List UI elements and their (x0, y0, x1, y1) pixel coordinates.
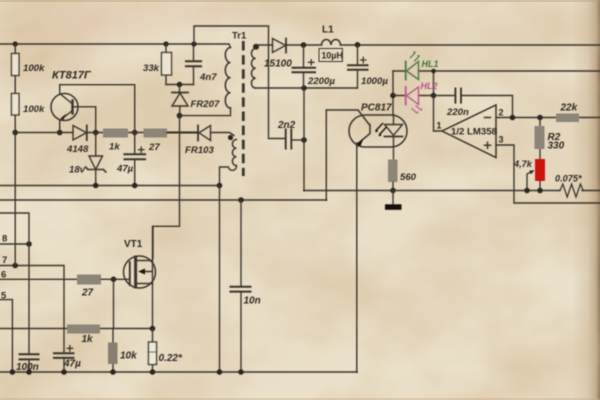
svg-text:27: 27 (148, 142, 160, 153)
capacitor 47u lower (54, 353, 74, 358)
ground symbol (392, 191, 394, 205)
optocoupler PC817 body (349, 115, 407, 147)
wire TL494 feedback row y=200 (0, 199, 326, 201)
svg-text:220n: 220n (446, 107, 469, 118)
node dot 1000u top (355, 42, 361, 48)
diode FR207 (179, 85, 181, 93)
pin 7 wire (0, 266, 64, 354)
wire (14, 115, 16, 133)
transistor VT1 mosfet (124, 256, 156, 288)
pin 6 wire (0, 278, 77, 280)
wire: top supply rail left section (0, 44, 231, 48)
svg-text:2200µ: 2200µ (307, 76, 335, 87)
svg-text:15100: 15100 (264, 59, 292, 70)
svg-text:3: 3 (499, 135, 504, 145)
diode 15100 (273, 39, 286, 53)
diode FR103 (167, 132, 198, 134)
wire: secondary top to diode (256, 44, 273, 46)
node dot divider bottom (12, 130, 18, 136)
svg-text:4n7: 4n7 (199, 72, 217, 83)
capacitor 1000u (357, 45, 359, 88)
node dot base/diode junction (93, 130, 99, 136)
resistor R 100k lower (12, 94, 20, 116)
resistor 0.22* (152, 329, 154, 373)
node dot emitter (57, 130, 63, 136)
svg-text:10µH: 10µH (322, 50, 343, 60)
resistor 27 lower (77, 275, 101, 285)
op-amp output wire to node (434, 96, 443, 132)
transformer core (242, 41, 245, 176)
wire bottom rail y=372 (0, 371, 357, 373)
zener VD 18v (95, 133, 97, 157)
capacitor 2n2 (286, 130, 292, 149)
svg-text:VT1: VT1 (124, 239, 143, 250)
led HL2 (393, 87, 434, 114)
wire x=304 down to ground row (303, 88, 305, 191)
node dot zener bottom (93, 183, 99, 189)
wire: lower return y=185.5 (0, 185, 220, 187)
svg-text:1000µ: 1000µ (361, 76, 388, 87)
wire pin8 jog (0, 213, 29, 244)
wire ground/sense row y=190.5 (304, 190, 600, 192)
transformer Tr1 primary winding (225, 48, 230, 108)
svg-text:33k: 33k (143, 63, 160, 74)
wire PC817 collector riser to TL line (325, 110, 327, 200)
svg-text:0.075*: 0.075* (555, 174, 582, 184)
resistor R 100k upper (12, 54, 20, 76)
svg-text:330: 330 (548, 141, 565, 152)
transformer secondary winding (253, 44, 259, 50)
resistor shunt 0.075* (560, 184, 583, 197)
node dot collector drop / 47u junction (132, 130, 138, 136)
wire: snubber bottom join (166, 84, 194, 86)
svg-text:КТ817Г: КТ817Г (52, 70, 92, 82)
resistor 22k (556, 114, 579, 123)
svg-text:10k: 10k (120, 351, 137, 362)
svg-text:100k: 100k (23, 63, 45, 74)
svg-text:1/2 LM358: 1/2 LM358 (451, 127, 498, 138)
svg-text:L1: L1 (322, 25, 334, 36)
resistor 560 (388, 160, 398, 183)
wire VT1 drain riser (153, 116, 180, 259)
node dot 2200u top (301, 42, 307, 48)
svg-text:HL1: HL1 (422, 59, 439, 69)
capacitor 2200u (303, 45, 305, 88)
wire 1k row y=328.5 (0, 328, 153, 330)
svg-text:HL2: HL2 (421, 81, 438, 91)
svg-text:FR103: FR103 (185, 145, 214, 156)
wire secondary ground rail y=88 (256, 87, 358, 89)
winding phase dot (228, 135, 233, 140)
wire (14, 44, 16, 94)
svg-text:FR207: FR207 (191, 99, 220, 110)
svg-text:18v: 18v (69, 165, 86, 176)
svg-text:100n: 100n (16, 362, 39, 373)
svg-text:1: 1 (437, 121, 442, 131)
svg-text:7: 7 (2, 255, 7, 266)
svg-text:100k: 100k (23, 104, 45, 115)
wire: Y-cap bridge over transformer (194, 26, 285, 139)
node dot feedback/return junction (217, 183, 223, 189)
svg-text:1k: 1k (82, 334, 94, 345)
svg-text:4,7k: 4,7k (513, 159, 533, 169)
svg-text:47µ: 47µ (63, 359, 81, 370)
svg-text:47µ: 47µ (116, 164, 134, 175)
op-amp pin2 wire (496, 117, 600, 119)
svg-text:2: 2 (499, 108, 504, 118)
transformer feedback winding (232, 140, 236, 166)
capacitor 47u upper (134, 133, 136, 186)
capacitor 220n (434, 96, 513, 118)
capacitor 10n (240, 200, 242, 372)
resistor 4,7k (red) (535, 159, 545, 181)
resistor R2 330 (539, 118, 541, 160)
inductor value box 10uH (319, 49, 343, 62)
svg-text:0.22*: 0.22* (159, 353, 183, 364)
svg-text:560: 560 (400, 172, 417, 183)
PC817 internal LED (385, 125, 403, 136)
capacitor 100n (28, 244, 30, 372)
node dot FR207 anode / primary bottom (177, 113, 183, 119)
pin 8 wire (0, 243, 29, 245)
pin 5 wire (0, 300, 12, 372)
resistor 27 (snubber row) (144, 129, 168, 138)
wire feedback winding down (219, 186, 221, 373)
PC817 internal light arrows (376, 124, 386, 135)
resistor 1k (to base) (103, 129, 128, 138)
led HL1 (393, 52, 600, 80)
resistor 10k (112, 329, 114, 373)
wire: main mid row y=132.5 (15, 132, 197, 134)
wire HL chain riser (392, 71, 394, 115)
svg-text:10n: 10n (244, 296, 261, 307)
wire gate pulldown riser (113, 279, 115, 328)
wire primary bottom (180, 108, 231, 116)
inductor L1 (322, 40, 341, 46)
resistor 33k (163, 41, 168, 46)
svg-text:6: 6 (1, 270, 6, 281)
diode VD 4148 (73, 126, 87, 141)
node dot at 100k divider top (13, 41, 18, 46)
svg-text:Tr1: Tr1 (232, 31, 247, 42)
svg-text:27: 27 (81, 288, 94, 299)
wire PC817 emitter down (356, 145, 358, 372)
svg-text:8: 8 (2, 234, 7, 245)
node dot op-amp output (431, 93, 437, 99)
transistor VT KT817G (51, 94, 78, 121)
wire HL1 right corner to output node (433, 71, 435, 96)
svg-text:4148: 4148 (66, 144, 89, 155)
svg-text:PC817: PC817 (361, 103, 392, 114)
svg-text:2n2: 2n2 (277, 120, 296, 131)
resistor 1k lower (67, 325, 100, 334)
wire: output rail (286, 44, 600, 46)
svg-text:1k: 1k (109, 142, 120, 153)
node dot 47u bottom (132, 183, 138, 189)
svg-text:5: 5 (1, 291, 7, 302)
capacitor 4n7 (191, 41, 196, 46)
adjustment arrow (527, 172, 532, 191)
wire divider to pin7 (14, 133, 16, 266)
op-amp pin3 sense wire (496, 145, 600, 203)
op-amp U 1/2 LM358 (442, 105, 496, 158)
PC817 phototransistor (326, 110, 370, 147)
svg-text:22k: 22k (560, 103, 578, 114)
node dot 2n2 right (301, 137, 307, 143)
